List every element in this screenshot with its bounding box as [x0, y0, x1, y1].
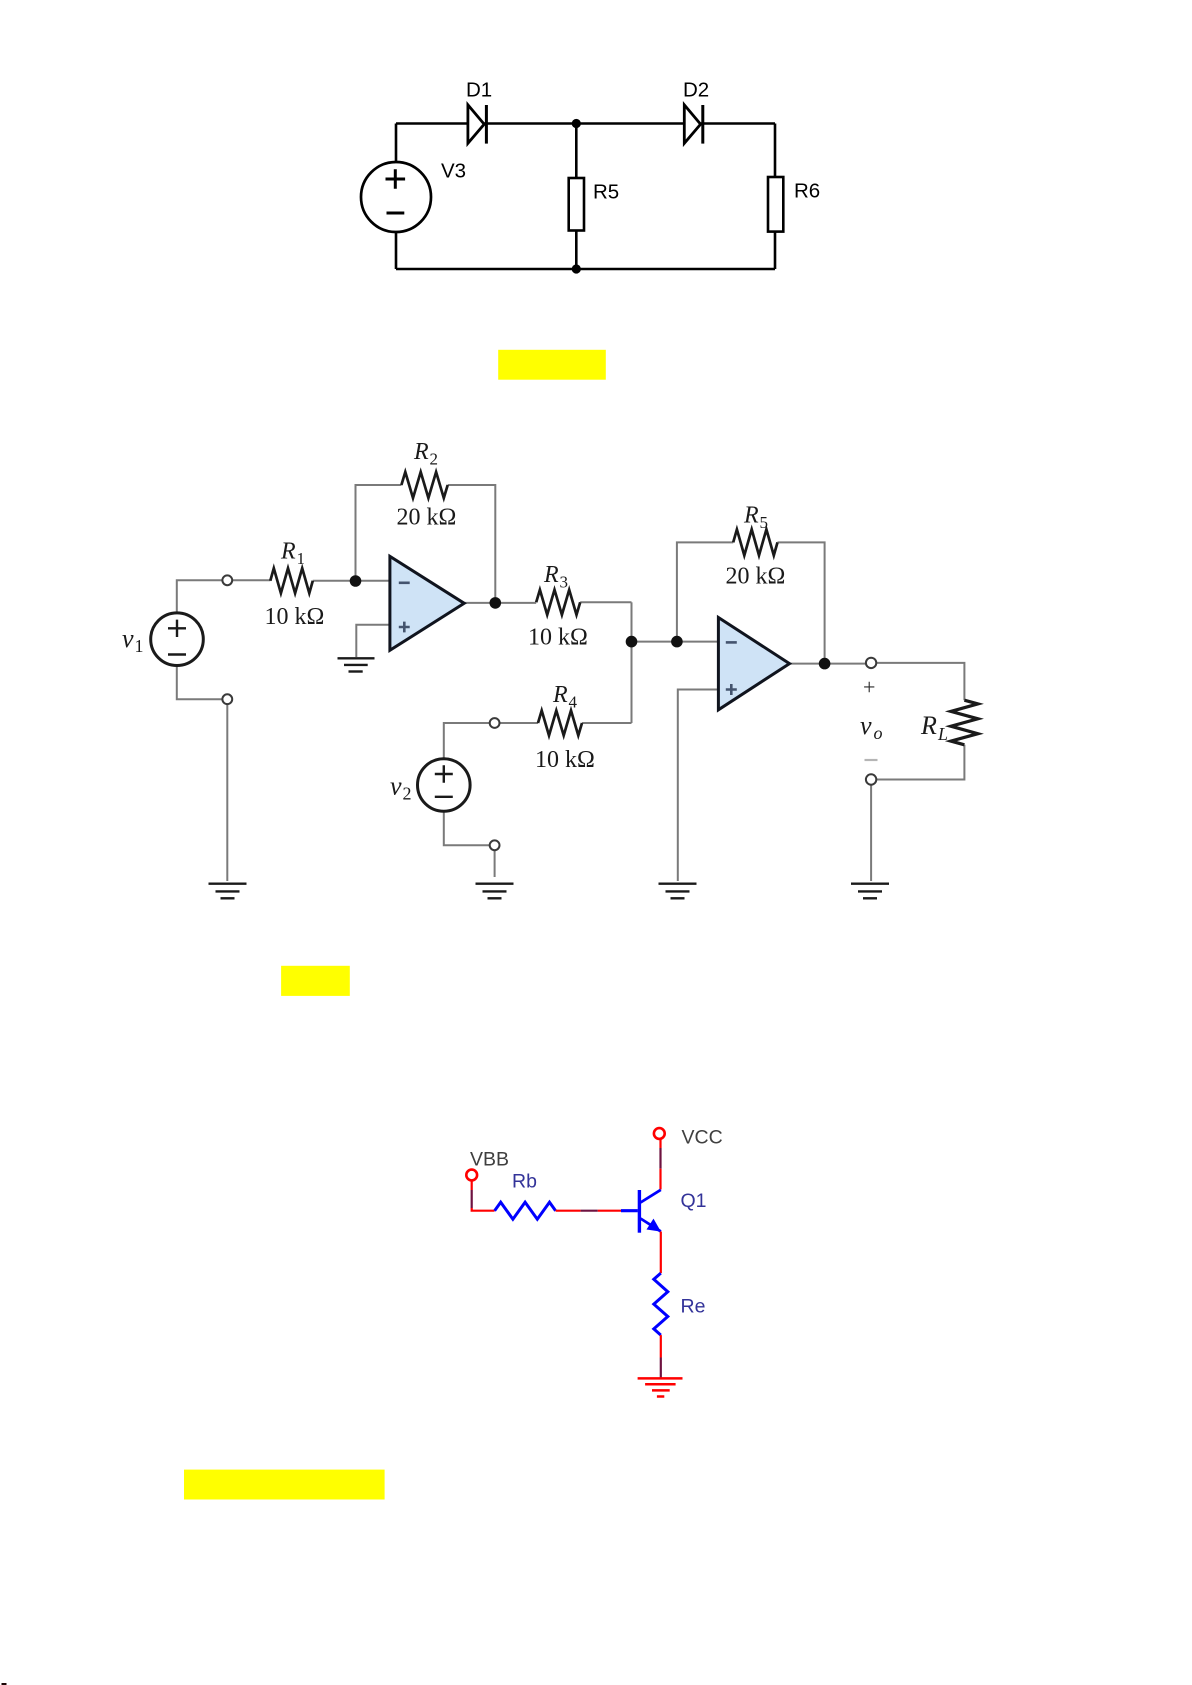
ground under op-amp2 plus [659, 884, 697, 899]
wire v2 terminal to ground [494, 850, 496, 877]
svg-text:1: 1 [135, 636, 144, 656]
wire left branch [395, 124, 398, 270]
wire Rb to base (red/maroon) [556, 1210, 621, 1212]
wire op-amp2 output [790, 663, 867, 665]
ground under v1 [209, 884, 247, 899]
v1 lower terminal (open circle) [222, 694, 232, 704]
svg-text:1: 1 [297, 549, 306, 568]
svg-text:v: v [122, 624, 134, 653]
svg-text:Q1: Q1 [681, 1190, 707, 1212]
source v2 [390, 759, 470, 812]
svg-text:10 kΩ: 10 kΩ [528, 625, 588, 651]
wire R5 right branch [778, 542, 825, 663]
wire op-amp2 plus to ground [678, 690, 719, 882]
ground at op-amp1 plus input [338, 658, 375, 671]
ground (red) [638, 1378, 683, 1396]
svg-text:+: + [863, 675, 875, 700]
resistor Rb [495, 1171, 556, 1220]
svg-text:R: R [743, 503, 759, 529]
wire R3 to node A [580, 601, 631, 603]
svg-text:Rb: Rb [512, 1171, 537, 1193]
svg-text:3: 3 [560, 573, 569, 592]
ground under v2 [476, 884, 514, 899]
wire bottom rail [396, 268, 775, 271]
v2 lower terminal (open circle) [490, 840, 500, 850]
wire v2 bottom lead [444, 811, 490, 845]
resistor R4 [535, 682, 595, 773]
svg-text:Re: Re [681, 1296, 706, 1318]
wire VCC to collector (red/maroon) [659, 1139, 661, 1190]
svg-text:V3: V3 [441, 160, 466, 183]
node junction bottom [572, 264, 581, 273]
resistor R5 (feedback) [726, 503, 786, 590]
wire v1 bottom lead [177, 667, 223, 700]
output label vo [860, 675, 883, 761]
transistor Q1 [621, 1190, 707, 1233]
resistor R3 [528, 562, 588, 651]
highlight bar 1 [498, 350, 606, 380]
wire right branch [774, 124, 777, 270]
wire v2 terminal to R4 [500, 722, 539, 724]
VCC terminal [654, 1127, 723, 1149]
svg-text:R: R [552, 682, 568, 708]
wire emitter to Re (red) [660, 1232, 662, 1274]
wire input terminal to R1 [232, 579, 270, 581]
diode D1 [466, 79, 492, 144]
svg-text:2: 2 [403, 784, 412, 804]
resistor Re [654, 1273, 706, 1335]
svg-text:10 kΩ: 10 kΩ [265, 604, 325, 630]
wire node A vertical [631, 602, 633, 723]
op-amp U1 [390, 556, 464, 650]
svg-text:D1: D1 [466, 79, 492, 102]
ground under vo [851, 884, 889, 899]
wire R5 left branch [677, 542, 733, 641]
node junction top [572, 119, 581, 128]
wire R1 to summing node [313, 580, 390, 582]
svg-text:R: R [543, 562, 559, 588]
wire v2 top lead [444, 723, 490, 759]
svg-text:20 kΩ: 20 kΩ [397, 505, 457, 531]
wire R2 right branch [448, 485, 496, 603]
svg-text:VBB: VBB [470, 1149, 509, 1171]
svg-text:D2: D2 [683, 79, 709, 102]
svg-text:2: 2 [430, 450, 439, 469]
load resistor RL [920, 700, 978, 745]
svg-text:v: v [860, 711, 872, 740]
svg-text:R: R [413, 439, 429, 465]
node junction at op-amp2 output [819, 658, 831, 670]
wire v1 terminal to ground [226, 704, 228, 881]
node junction at op-amp1 minus input [350, 575, 362, 587]
svg-text:R6: R6 [794, 180, 820, 203]
wire vo plus terminal to RL [876, 663, 964, 700]
voltage source V3 [361, 160, 466, 233]
vo plus terminal (open circle) [866, 658, 876, 668]
source v1 [122, 613, 203, 666]
resistor R6 (top circuit) [768, 177, 820, 232]
diode D2 [683, 79, 709, 144]
svg-text:L: L [937, 724, 948, 744]
v2 input terminal (open circle) [490, 718, 500, 728]
svg-text:VCC: VCC [682, 1127, 723, 1149]
wire node A to op-amp2 minus [632, 641, 719, 643]
highlight bar 3 [184, 1470, 385, 1500]
wire op-amp1 plus input to ground [356, 625, 390, 657]
svg-text:10 kΩ: 10 kΩ [535, 747, 595, 773]
op-amp U2 [718, 618, 789, 710]
svg-text:5: 5 [760, 513, 769, 532]
svg-text:v: v [390, 772, 402, 801]
resistor R5 (top circuit) [569, 178, 620, 231]
wire R2 left branch [356, 485, 402, 578]
node A junction (R3/R4) [626, 636, 638, 648]
wire RL bottom to vo minus terminal [876, 745, 964, 780]
wire v1 top lead [177, 580, 223, 612]
svg-text:20 kΩ: 20 kΩ [726, 564, 786, 590]
node junction at op-amp2 minus input [671, 636, 683, 648]
wire vo minus to ground [870, 785, 872, 881]
svg-text:R5: R5 [593, 181, 619, 204]
svg-text:4: 4 [569, 693, 578, 712]
highlight bar 2 [281, 966, 350, 996]
wire Re to ground (red/maroon) [660, 1335, 662, 1378]
wire R4 to node A [582, 722, 632, 724]
wire middle branch [575, 124, 578, 270]
node junction at op-amp1 output [490, 597, 502, 609]
svg-text:R: R [280, 539, 296, 565]
wire VBB lead (red/maroon) [471, 1181, 495, 1211]
svg-text:R: R [920, 711, 937, 740]
VBB terminal [466, 1149, 509, 1181]
resistor R2 [397, 439, 457, 531]
wire top rail [396, 122, 775, 125]
input terminal (open circle) [222, 575, 232, 585]
vo minus terminal (open circle) [866, 774, 876, 784]
svg-text:o: o [874, 723, 883, 743]
resistor R1 [265, 539, 325, 631]
wire op-amp1 output [464, 602, 536, 604]
page corner artifact [2, 1683, 7, 1685]
